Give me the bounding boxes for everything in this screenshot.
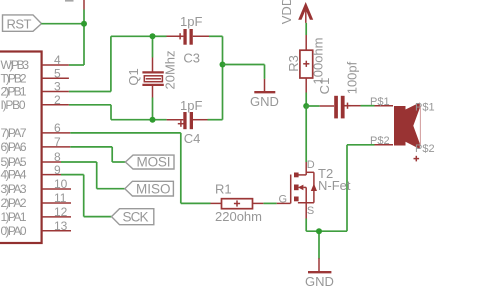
ground GND1 <box>250 92 279 109</box>
svg-text:6: 6 <box>54 121 61 135</box>
wire R3 to junction <box>305 78 307 106</box>
svg-text:P$1: P$1 <box>415 101 435 113</box>
svg-text:W)PB3: W)PB3 <box>1 58 30 72</box>
svg-text:MISO: MISO <box>136 182 171 197</box>
svg-text:VDD: VDD <box>279 0 294 24</box>
wire net PA7 to R1 <box>70 133 221 204</box>
svg-text:T)PB2: T)PB2 <box>1 71 27 85</box>
wire R1 to gate <box>253 202 291 204</box>
svg-text:1)PA1: 1)PA1 <box>1 210 27 224</box>
junction RST node <box>81 21 87 27</box>
wire net XTAL1 (pin3 to crystal top / C3) <box>69 36 183 91</box>
capacitor C1 <box>334 96 360 119</box>
svg-text:7: 7 <box>54 135 61 149</box>
wire net XTAL1 right of C3 <box>209 36 223 64</box>
svg-text:I)PB0: I)PB0 <box>1 98 26 112</box>
svg-text:1pF: 1pF <box>180 14 202 29</box>
svg-text:SCK: SCK <box>123 209 149 224</box>
svg-text:3: 3 <box>54 80 61 94</box>
pin 3 (PB1) <box>1 80 69 99</box>
junction XTAL1 node <box>150 33 156 39</box>
wire drain up <box>305 106 307 162</box>
transistor T2 N-Fet <box>291 162 317 219</box>
svg-text:1pF: 1pF <box>180 98 202 113</box>
svg-text:3)PA3: 3)PA3 <box>1 182 27 196</box>
flag RST <box>3 15 42 32</box>
svg-text:11: 11 <box>54 191 67 205</box>
svg-text:5: 5 <box>54 67 61 81</box>
wire net MISO <box>61 162 125 189</box>
svg-text:GND: GND <box>250 94 279 109</box>
svg-text:G: G <box>279 193 288 205</box>
flag SCK <box>112 209 154 225</box>
supply VDD <box>279 0 313 24</box>
junction C3/C4 node <box>220 62 226 68</box>
svg-text:Q1: Q1 <box>126 68 141 85</box>
junction R3/C1/drain node <box>303 103 309 109</box>
svg-text:10: 10 <box>54 177 68 191</box>
svg-text:P$1: P$1 <box>370 96 390 108</box>
svg-text:C4: C4 <box>184 131 201 146</box>
svg-text:S: S <box>307 205 314 217</box>
wire C1 to speaker P$1 <box>361 105 394 107</box>
wire net MOSI <box>70 147 125 162</box>
svg-text:2)PB1: 2)PB1 <box>1 85 27 99</box>
wire VDD to R3 <box>305 23 307 50</box>
pin 11 (PA2) <box>1 191 72 210</box>
svg-text:4: 4 <box>54 53 61 67</box>
svg-text:220ohm: 220ohm <box>215 209 262 224</box>
svg-text:N-Fet: N-Fet <box>318 178 351 193</box>
label remnant top edge <box>65 0 74 2</box>
wire net XTAL2 right of C4 <box>208 65 223 120</box>
pin 8 (PA5) <box>1 150 62 169</box>
flag MISO <box>125 181 174 196</box>
junction source/GND node <box>316 228 322 234</box>
pin cross C3 <box>177 33 183 39</box>
pin 2 (PB0) <box>1 93 69 112</box>
wire net XTAL2 (pin2 to crystal bottom / C4) <box>69 98 183 120</box>
svg-text:P$2: P$2 <box>415 143 435 155</box>
pin 13 (PA0) <box>1 219 72 238</box>
resistor R3 <box>300 50 313 78</box>
svg-text:C3: C3 <box>183 51 200 66</box>
svg-text:2: 2 <box>54 93 61 107</box>
wire net SCK <box>61 175 112 217</box>
pin 5 (PB2) <box>1 67 69 86</box>
capacitor C3 <box>183 29 209 45</box>
wire net RST <box>41 0 84 65</box>
svg-text:20Mhz: 20Mhz <box>163 50 178 89</box>
wire to GND1 <box>223 65 265 92</box>
wire speaker P$2 down <box>347 145 393 231</box>
svg-text:12: 12 <box>54 205 68 219</box>
crystal Q1 <box>142 72 163 97</box>
pin 6 (PA7) <box>1 121 71 140</box>
pin cross speaker <box>414 156 420 162</box>
junction XTAL2 node <box>150 117 156 123</box>
pin 9 (PA4) <box>1 163 62 182</box>
pin cross C1 <box>344 103 350 109</box>
ground GND2 <box>305 272 334 289</box>
svg-text:RST: RST <box>7 17 32 32</box>
pin cross C4 <box>178 121 184 127</box>
wire source to bottom node <box>306 219 347 272</box>
svg-text:100ohm: 100ohm <box>311 38 326 85</box>
svg-text:R1: R1 <box>215 182 232 197</box>
pin 12 (PA1) <box>1 205 72 224</box>
svg-text:9: 9 <box>54 163 61 177</box>
svg-text:13: 13 <box>54 219 68 233</box>
flag MOSI <box>125 155 174 170</box>
svg-text:R3: R3 <box>286 55 301 72</box>
IC U1 body <box>0 52 42 244</box>
svg-text:2)PA2: 2)PA2 <box>1 196 27 210</box>
svg-text:MOSI: MOSI <box>137 155 171 170</box>
capacitor C4 <box>183 112 207 129</box>
svg-text:6)PA6: 6)PA6 <box>1 140 27 154</box>
pin 7 (PA6) <box>1 135 71 154</box>
svg-text:GND: GND <box>305 274 334 289</box>
svg-text:C1: C1 <box>317 78 332 95</box>
speaker PS1 body <box>394 103 420 150</box>
resistor R1 <box>222 199 253 209</box>
svg-text:4)PA4: 4)PA4 <box>1 168 27 182</box>
pin 10 (PA3) <box>1 177 72 196</box>
svg-text:D: D <box>307 159 315 171</box>
svg-text:100pf: 100pf <box>345 61 360 94</box>
svg-text:0)PA0: 0)PA0 <box>1 224 27 238</box>
wire junction to C1 <box>306 105 334 107</box>
pin 4 (PB3) <box>1 53 69 72</box>
svg-text:7)PA7: 7)PA7 <box>1 126 27 140</box>
